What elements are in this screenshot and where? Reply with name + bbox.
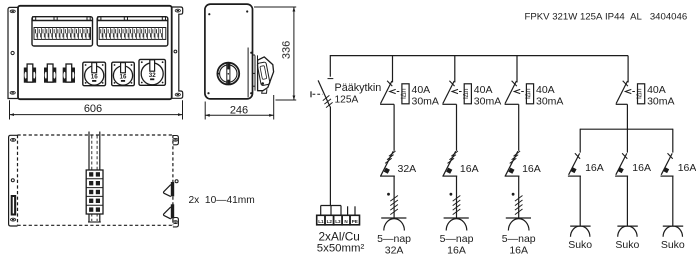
schematic title FPKV 321W 125A IP44 AL 3404046: [525, 12, 688, 23]
bottom view: cable gland 1: [163, 182, 174, 197]
RCD 4 40A 30mA: [616, 56, 675, 108]
label 2x 10-41mm: [189, 195, 255, 206]
main bus wire: [330, 55, 628, 57]
svg-text:32: 32: [149, 72, 156, 79]
bottom view: right flange: [173, 136, 179, 227]
socket Suko 2: [615, 176, 639, 251]
front view: schuko socket 3: [63, 64, 75, 83]
dimension 246: [205, 95, 274, 120]
wire RCD3 to breaker3: [518, 104, 520, 151]
sub-bus wire for schuko branches: [580, 128, 673, 130]
front view: terminal strip block 1: [32, 17, 93, 46]
front view: right mounting flange: [172, 7, 183, 98]
svg-text:PE: PE: [352, 219, 358, 224]
dimension 336: [254, 7, 296, 100]
svg-text:16A: 16A: [632, 162, 651, 174]
front view: terminal strip block 2: [97, 17, 168, 46]
svg-text:16: 16: [91, 74, 98, 81]
wire RCD4 to sub-bus: [626, 104, 628, 129]
bottom view: DIN rail: [88, 132, 101, 223]
side view: enclosure outline: [205, 4, 253, 99]
svg-text:30mA: 30mA: [412, 96, 439, 108]
RCD 2 40A 30mA: [442, 56, 501, 108]
svg-text:30mA: 30mA: [536, 96, 563, 108]
supply terminal block L1 L2 L3 N PE: [317, 206, 360, 225]
socket Suko 1: [568, 176, 592, 251]
breaker 32A (branch 1): [380, 151, 416, 176]
svg-text:L3: L3: [335, 219, 341, 224]
svg-text:30mA: 30mA: [474, 96, 501, 108]
main switch Pääkytkin 125A: [311, 55, 381, 108]
label 2xAl/Cu 5x50mm2: [317, 229, 365, 254]
svg-text:606: 606: [84, 103, 102, 115]
breaker 16A (branch 3): [505, 151, 541, 176]
side view: screw holes: [207, 10, 252, 94]
socket 5-nap 16A (branch 3): [502, 176, 536, 256]
svg-text:Pääkytkin: Pääkytkin: [335, 82, 382, 94]
bottom view: enclosure outline (hidden edges dashed): [18, 135, 173, 225]
bottom view: cable gland 2: [163, 204, 174, 219]
svg-text:32A: 32A: [398, 163, 417, 175]
svg-text:IΔn: IΔn: [525, 88, 532, 99]
svg-text:L1: L1: [318, 219, 324, 224]
socket 5-nap 32A: [377, 176, 411, 256]
svg-text:5—nap: 5—nap: [377, 233, 411, 245]
svg-text:IΔn: IΔn: [401, 88, 408, 99]
svg-text:5x50mm²: 5x50mm²: [317, 243, 365, 255]
breaker 16A (branch 2): [442, 151, 478, 176]
svg-text:32A: 32A: [385, 244, 404, 256]
dimension 606: [10, 100, 183, 119]
breaker 16A (schuko branch 2): [615, 129, 651, 176]
svg-text:336: 336: [281, 41, 293, 59]
breaker 16A (schuko branch 1): [568, 129, 604, 176]
svg-text:16: 16: [120, 74, 127, 81]
svg-text:16A: 16A: [460, 163, 479, 175]
side view: main switch knob: [217, 63, 239, 85]
svg-text:Suko: Suko: [615, 239, 639, 251]
front view: CEE socket 16A #1: [83, 62, 106, 85]
svg-text:Suko: Suko: [661, 239, 685, 251]
socket 5-nap 16A (branch 2): [440, 176, 474, 256]
svg-text:16A: 16A: [585, 162, 604, 174]
svg-text:5—nap: 5—nap: [502, 233, 536, 245]
svg-text:L2: L2: [327, 219, 333, 224]
front view: enclosure outline: [18, 6, 172, 99]
RCD 1 40A 30mA: [380, 56, 439, 108]
svg-text:16A: 16A: [509, 244, 528, 256]
svg-text:40A: 40A: [474, 84, 493, 96]
svg-text:125A: 125A: [335, 95, 359, 106]
breaker 16A (schuko branch 3): [661, 129, 696, 176]
front view: CEE socket 32A: [139, 59, 165, 85]
svg-text:16A: 16A: [522, 163, 541, 175]
RCD 3 40A 30mA: [505, 56, 564, 108]
svg-text:40A: 40A: [647, 84, 666, 96]
bottom view: fuse terminal block: [86, 170, 103, 214]
svg-text:FPKV 321W 125A IP44 AL 3404: FPKV 321W 125A IP44 AL 3404046: [525, 12, 688, 23]
front view: CEE socket 16A #2: [112, 62, 135, 85]
svg-text:246: 246: [230, 104, 248, 116]
feeder wire from main switch: [329, 107, 331, 206]
svg-text:40A: 40A: [412, 84, 431, 96]
svg-text:16A: 16A: [678, 162, 696, 174]
svg-text:30mA: 30mA: [647, 96, 674, 108]
bottom view: left flange with hinge: [9, 135, 18, 226]
wire RCD2 to breaker2: [456, 104, 458, 151]
socket Suko 3: [661, 176, 685, 251]
front view: left mounting flange: [8, 7, 18, 98]
svg-text:5—nap: 5—nap: [440, 233, 474, 245]
svg-text:2x 10—41mm: 2x 10—41mm: [189, 195, 255, 206]
svg-text:16A: 16A: [447, 244, 466, 256]
wire RCD1 to breaker1: [393, 104, 395, 151]
front view: schuko socket 1: [24, 64, 36, 83]
front view: schuko socket 2: [44, 64, 56, 83]
svg-text:2xAl/Cu: 2xAl/Cu: [319, 229, 360, 243]
side view: appliance inlet (protruding): [253, 55, 274, 93]
svg-text:40A: 40A: [536, 84, 555, 96]
svg-text:IΔn: IΔn: [463, 88, 470, 99]
svg-text:Suko: Suko: [568, 239, 592, 251]
svg-text:IΔn: IΔn: [636, 88, 643, 99]
side view: lid seam line: [247, 48, 249, 98]
